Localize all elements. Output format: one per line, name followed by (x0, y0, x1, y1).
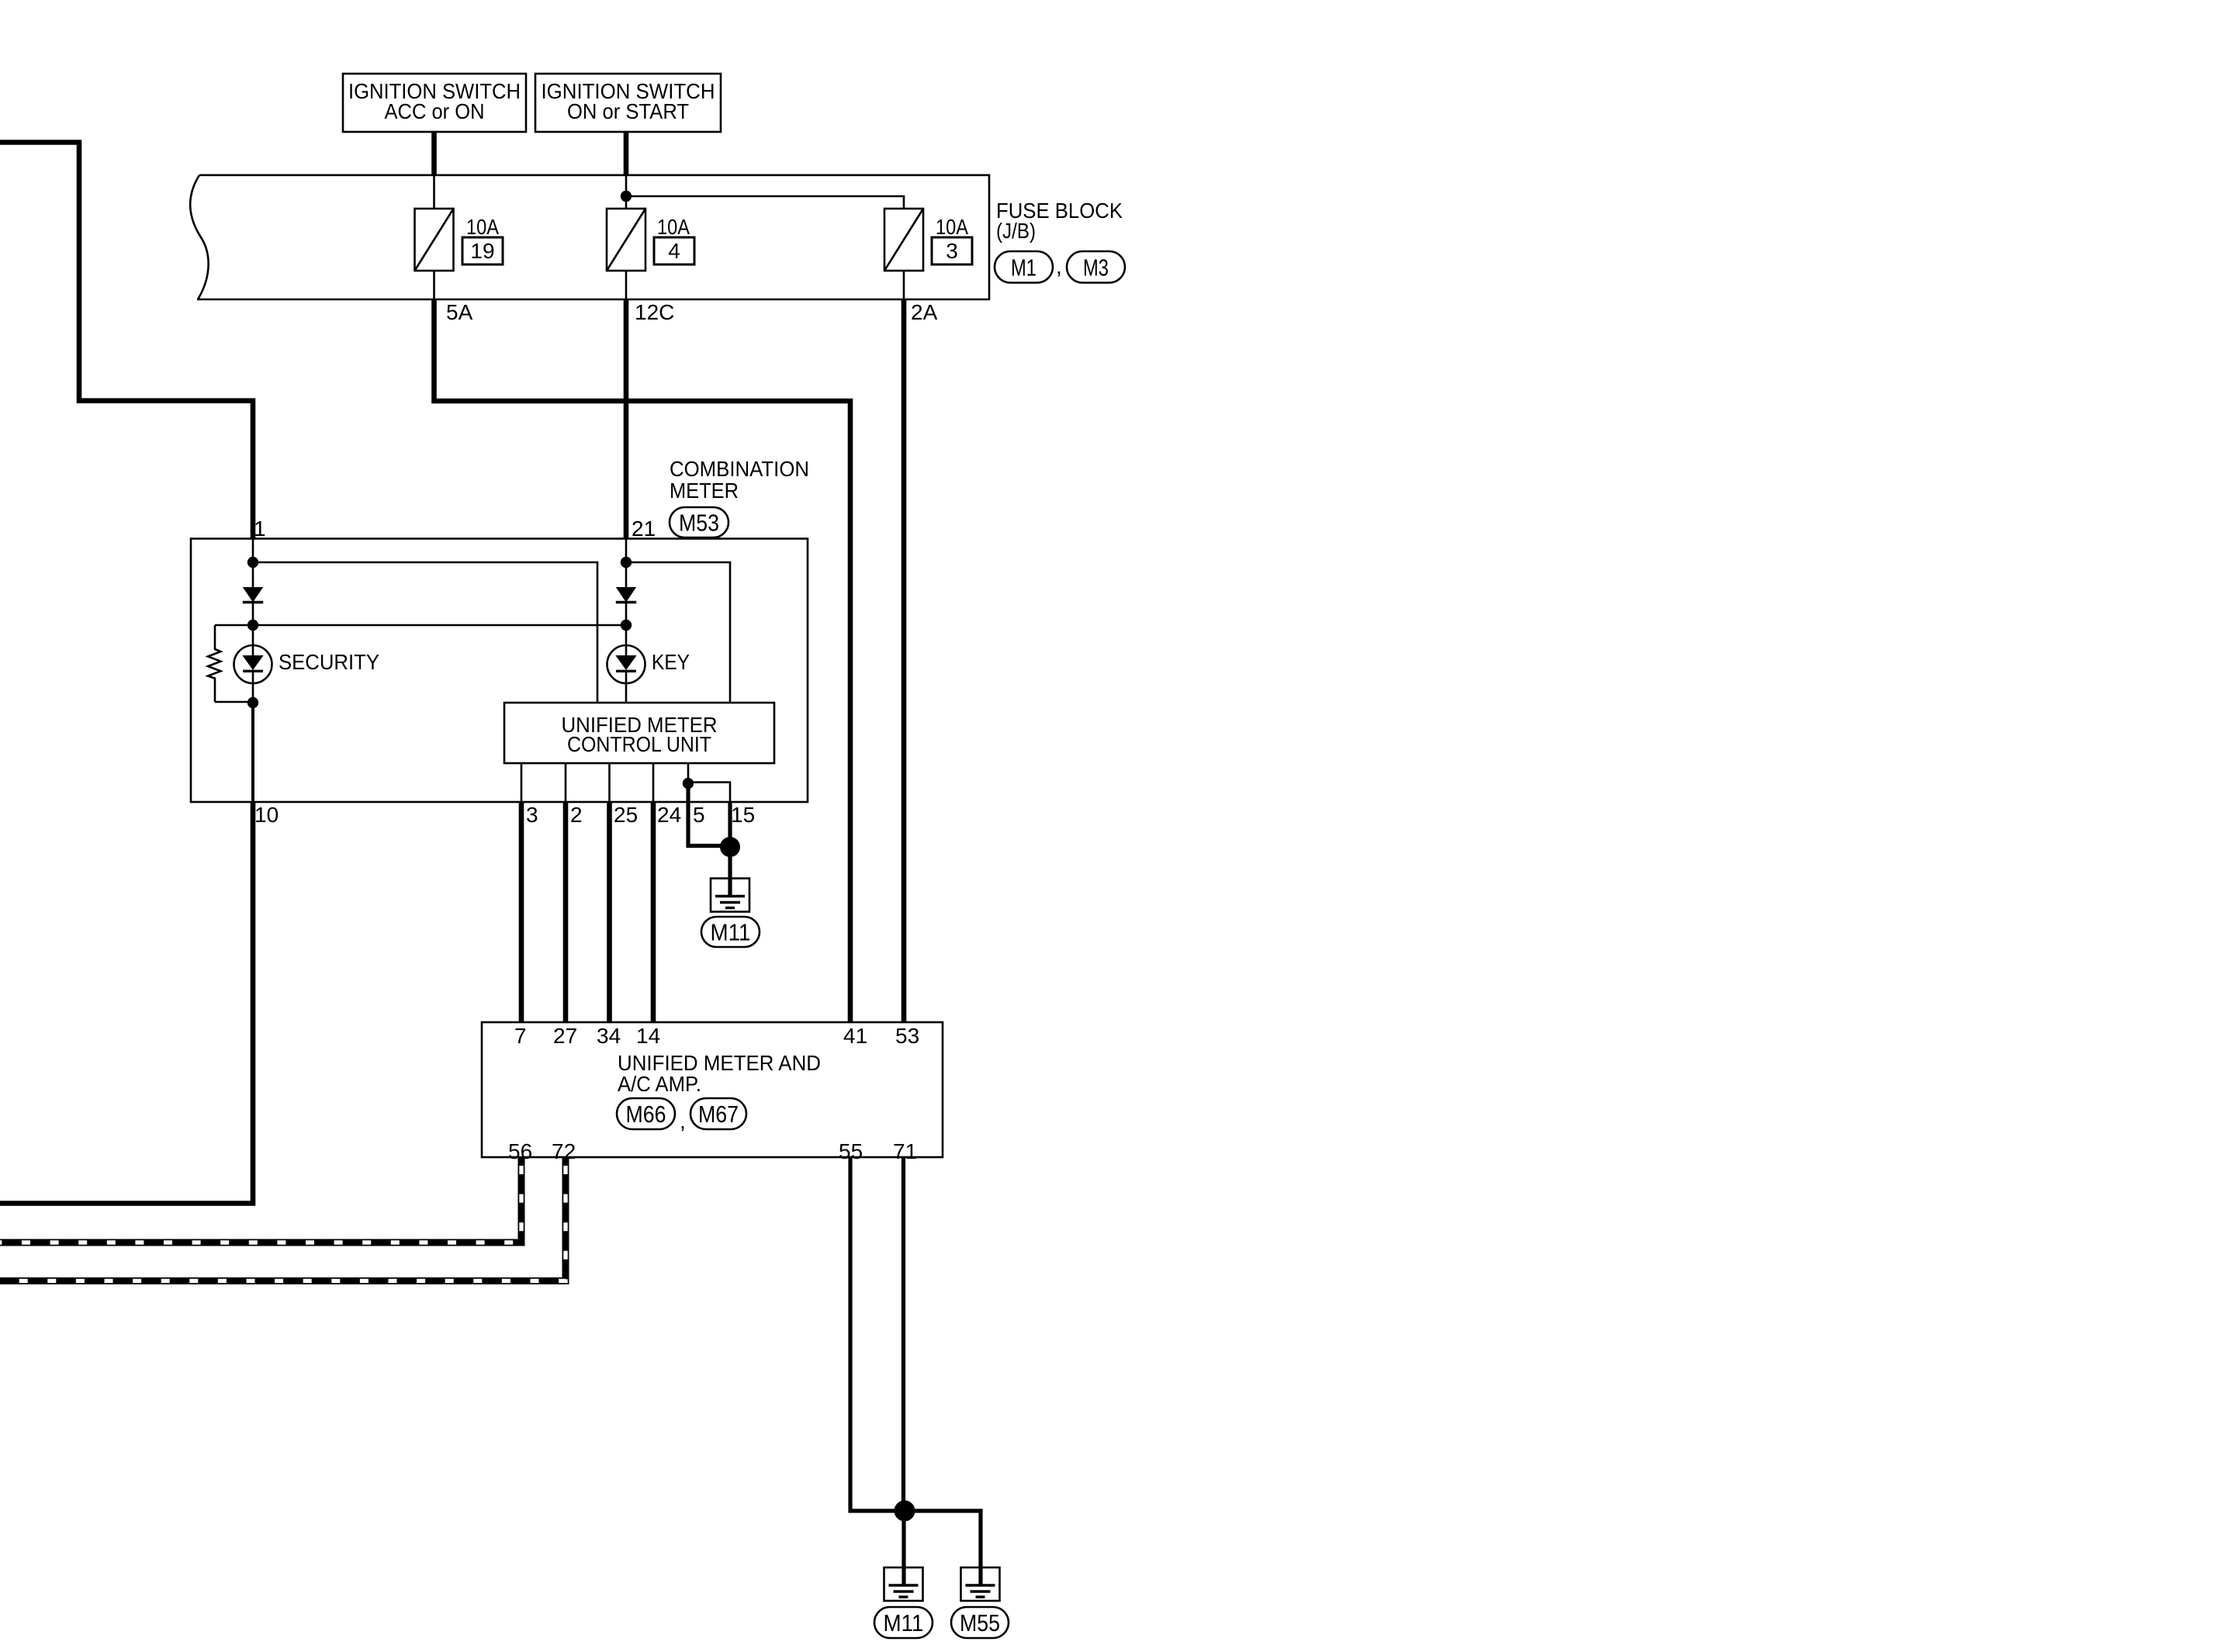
svg-text:ON or START: ON or START (567, 99, 689, 123)
svg-text:M11: M11 (711, 919, 751, 946)
svg-text:CONTROL UNIT: CONTROL UNIT (567, 732, 711, 756)
connector M3 (1067, 251, 1125, 283)
svg-text:5: 5 (693, 803, 705, 827)
wire: ignition switch ACC to fuse block (431, 132, 437, 175)
svg-text:10A: 10A (657, 215, 690, 239)
unified meter and A/C amp box (482, 1022, 943, 1157)
fuse 4 lead top (625, 175, 628, 209)
ground symbol M55 (961, 1567, 1000, 1601)
svg-text:3: 3 (526, 803, 538, 827)
svg-text:M1: M1 (1011, 254, 1036, 281)
shielded wire pin 56 (dashed) (0, 1157, 521, 1242)
node: security LED anode (247, 620, 258, 631)
wire: tap to fuse 3 (626, 196, 904, 209)
node: junction under fuse 4 top (621, 191, 632, 202)
node: security LED cathode (252, 672, 254, 703)
connector M66 (617, 1098, 675, 1129)
connector M55 (951, 1607, 1009, 1638)
fuse 3 lead bottom (903, 271, 905, 299)
ground symbol M11 (bottom) (884, 1567, 923, 1601)
node pin5/15 (683, 778, 694, 789)
svg-text:M67: M67 (698, 1101, 739, 1128)
svg-text:53: 53 (895, 1024, 919, 1048)
svg-text:M3: M3 (1083, 254, 1109, 281)
ground junction node (895, 1501, 915, 1522)
svg-text:5A: 5A (446, 300, 473, 324)
diode (security branch) (243, 587, 263, 603)
svg-text:A/C AMP.: A/C AMP. (618, 1072, 701, 1096)
fuse 4 lead bottom (625, 271, 628, 299)
wire pin5 to ground junction (688, 783, 730, 846)
svg-text:2: 2 (570, 803, 583, 827)
wire: link security-key nodes (253, 624, 626, 627)
svg-text:10A: 10A (466, 215, 499, 239)
wire: resistor bottom link (215, 701, 253, 703)
value box 3 (932, 237, 972, 264)
node key top (621, 557, 632, 568)
wire junction to ground M55 (905, 1511, 981, 1585)
wires meter pins 3,2,25,24 down to amp 7,27,34,14 (519, 802, 524, 1022)
wire pin 71 to ground junction (901, 1157, 905, 1511)
svg-text:7: 7 (514, 1024, 527, 1048)
node: key LED anode (621, 620, 632, 631)
resistor (parallel with SECURITY LED) (208, 625, 220, 702)
svg-text:M55: M55 (960, 1609, 1000, 1636)
wire to unified meter control unit (ign sense) (626, 562, 730, 703)
svg-text:M66: M66 (626, 1101, 666, 1128)
svg-text:21: 21 (632, 517, 656, 541)
svg-text:24: 24 (657, 803, 681, 827)
wire pin15 to ground junction (728, 802, 732, 847)
unified meter control unit box (504, 703, 774, 763)
svg-text:COMBINATION: COMBINATION (670, 457, 809, 481)
control unit output stubs to meter pins 3,2,25,24 (521, 763, 523, 802)
value box 4 (654, 237, 694, 264)
svg-text:ACC or ON: ACC or ON (385, 99, 485, 123)
wire (625, 539, 628, 587)
fuse block (J/B) outline (190, 175, 989, 299)
junction to ground M11 (720, 837, 740, 857)
connector M11 (701, 917, 760, 947)
svg-text:14: 14 (636, 1024, 660, 1048)
wire (252, 603, 254, 646)
wire (625, 672, 628, 703)
wire pin5 node to pin15 (688, 783, 730, 802)
wire: 5A feed down and across to pin 41 (434, 299, 851, 1022)
svg-text:SECURITY: SECURITY (279, 650, 379, 674)
value box 19 (462, 237, 503, 264)
LED KEY (607, 645, 645, 683)
fuse 3 (10A) (884, 209, 923, 271)
svg-text:10: 10 (254, 803, 279, 827)
connector M11 (bottom) (874, 1607, 933, 1638)
svg-text:19: 19 (470, 239, 494, 263)
svg-text:M11: M11 (884, 1609, 924, 1636)
svg-text:,: , (680, 1109, 686, 1133)
wire (625, 603, 628, 646)
svg-text:10A: 10A (936, 215, 968, 239)
wire: ignition switch ON/START to fuse block (624, 132, 629, 175)
fuse 19 lead bottom (433, 271, 435, 299)
svg-text:4: 4 (668, 239, 680, 263)
svg-text:2A: 2A (911, 300, 938, 324)
wire: resistor top link (215, 624, 253, 627)
svg-text:41: 41 (843, 1024, 867, 1048)
ignition switch box 1 (ACC or ON) (343, 74, 526, 132)
wire junction to ground M11 (901, 1511, 905, 1585)
svg-text:,: , (1056, 254, 1062, 278)
svg-text:KEY: KEY (652, 650, 690, 674)
svg-text:M53: M53 (679, 510, 719, 537)
svg-text:(J/B): (J/B) (996, 219, 1036, 243)
ground symbol (M11, meter) (711, 879, 749, 912)
connector M53 (670, 507, 728, 537)
svg-text:METER: METER (670, 479, 739, 503)
svg-text:34: 34 (597, 1024, 621, 1048)
fuse 19 (10A) (415, 209, 454, 271)
wire: 2A feed to pin 53 (901, 299, 907, 1022)
combination meter box M53 (191, 539, 808, 803)
shielded wire pin 72 (dashed) (0, 1157, 566, 1281)
connector M67 (690, 1098, 746, 1129)
svg-text:25: 25 (614, 803, 638, 827)
fuse 4 (10A) (607, 209, 645, 271)
svg-text:15: 15 (731, 803, 755, 827)
node on security branch (pin1) (252, 539, 254, 587)
wire to unified meter control unit (security drive) (253, 562, 597, 703)
fuse 19 lead top (433, 175, 435, 209)
svg-text:3: 3 (946, 239, 958, 263)
wire: 12C feed to combination meter pin 21 (624, 299, 629, 539)
wire pin10 to left exit (0, 802, 253, 1204)
svg-text:12C: 12C (635, 300, 674, 324)
connector M1 (995, 251, 1053, 283)
svg-text:27: 27 (553, 1024, 577, 1048)
svg-text:1: 1 (254, 517, 266, 541)
wire pin 55 to ground junction (850, 1157, 905, 1511)
ignition switch box 2 (ON or START) (535, 74, 721, 132)
wire: battery feed from left, ACC bus (0, 143, 253, 540)
LED SECURITY (234, 645, 272, 683)
pin5 stub (687, 763, 690, 783)
